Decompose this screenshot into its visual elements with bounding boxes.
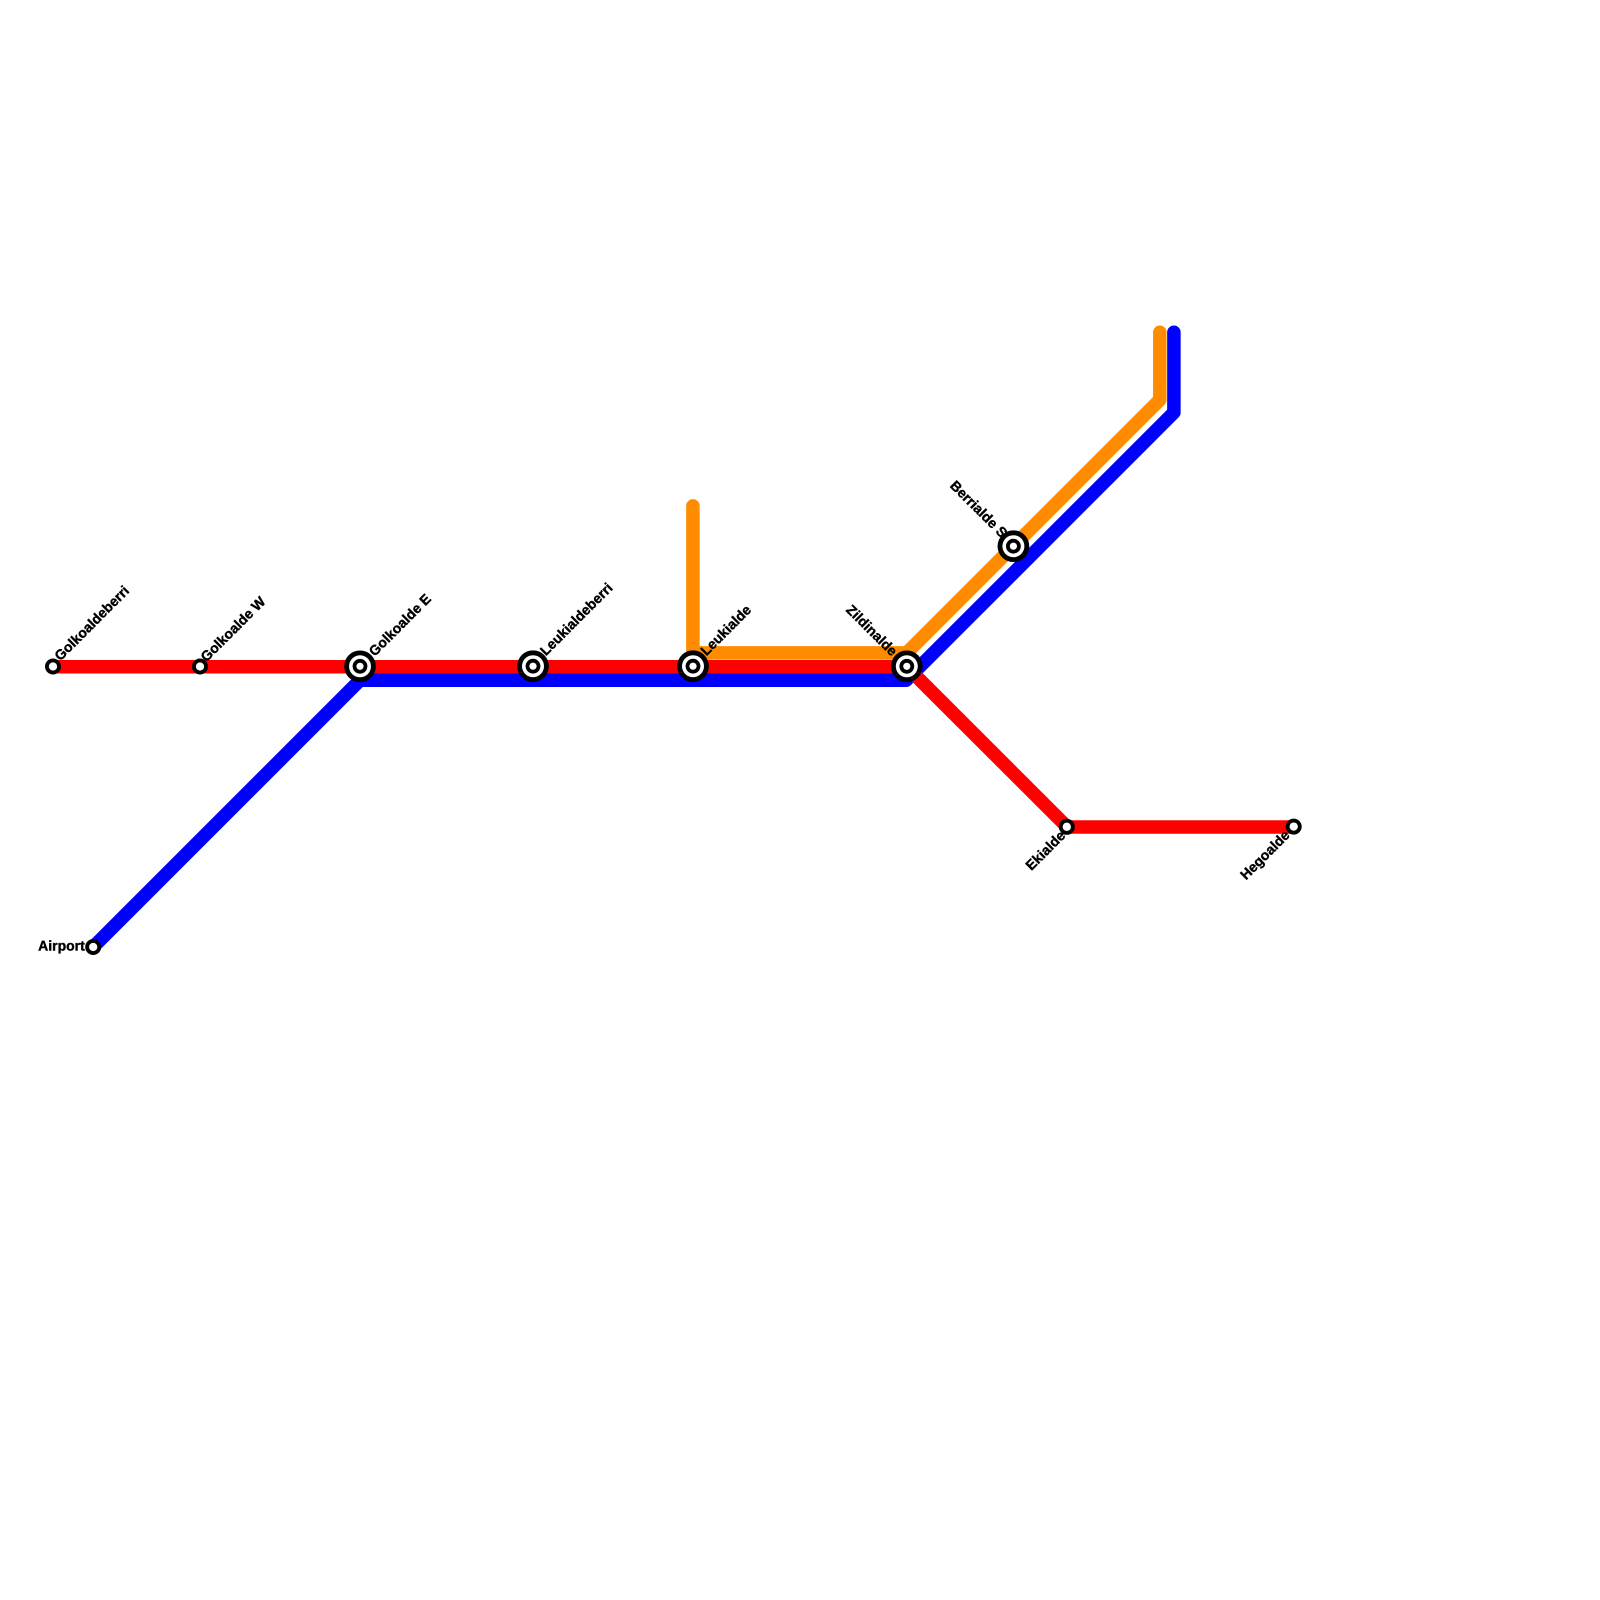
svg-text:Leukialdeberri: Leukialdeberri bbox=[537, 580, 616, 659]
svg-text:Berrialde S: Berrialde S bbox=[947, 477, 1011, 541]
svg-text:Golkoaldeberri: Golkoaldeberri bbox=[51, 582, 132, 663]
svg-text:Ekialde: Ekialde bbox=[1022, 827, 1068, 873]
svg-text:Airport: Airport bbox=[38, 938, 85, 954]
svg-text:Golkoalde E: Golkoalde E bbox=[365, 591, 434, 660]
svg-text:Golkoalde W: Golkoalde W bbox=[197, 593, 269, 665]
svg-text:Hegoalde: Hegoalde bbox=[1237, 827, 1293, 883]
